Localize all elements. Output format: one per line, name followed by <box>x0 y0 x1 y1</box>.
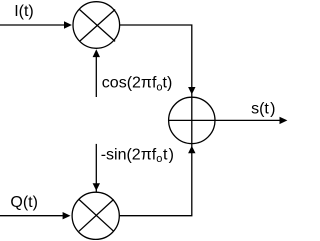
svg-text:Q(t): Q(t) <box>10 194 38 211</box>
svg-text:s(t): s(t) <box>251 101 275 118</box>
svg-text:cos(2πfot): cos(2πfot) <box>102 75 173 94</box>
svg-text:-sin(2πfot): -sin(2πfot) <box>101 146 174 165</box>
svg-text:I(t): I(t) <box>14 3 34 20</box>
